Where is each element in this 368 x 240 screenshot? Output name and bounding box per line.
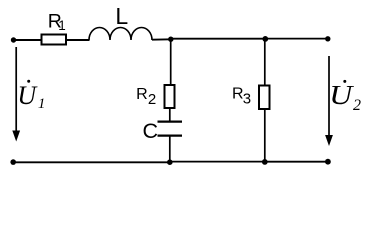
svg-text:U: U [329, 81, 354, 110]
resistor R2 [165, 85, 175, 108]
label U2 [329, 80, 361, 114]
svg-text:2: 2 [148, 91, 156, 108]
wire: bottom rail right segment [265, 161, 328, 163]
node: bottom junction of R3 branch [262, 159, 268, 165]
wire: node B to top-right output terminal [266, 38, 329, 40]
node: top-left input terminal [11, 37, 16, 42]
wire: node B down to R3 [264, 39, 266, 85]
resistor R1 [42, 35, 67, 45]
svg-text:3: 3 [243, 91, 251, 108]
wire: bottom rail middle segment [170, 161, 265, 163]
resistor R3 [259, 86, 270, 110]
svg-text:U: U [17, 81, 38, 110]
label L [115, 3, 128, 29]
label R1 [48, 10, 66, 33]
label U1 [17, 80, 45, 113]
svg-text:C: C [143, 119, 159, 143]
capacitor C [158, 122, 183, 136]
wire: inductor to node A [152, 38, 171, 40]
inductor L [89, 27, 152, 40]
wire: bottom rail left segment [13, 161, 170, 163]
label R3 [232, 85, 251, 107]
node A: junction of L, R2 branch [168, 37, 173, 42]
wire: top rail from input terminal to R1 [14, 39, 42, 41]
wire: R3 down to bottom rail [264, 110, 266, 162]
wire: node A to node B [171, 38, 266, 40]
U2 voltage arrow [325, 56, 333, 146]
svg-text:1: 1 [38, 96, 46, 112]
wire: capacitor C down to bottom rail [169, 136, 171, 162]
svg-text:1: 1 [58, 18, 66, 33]
wire: node A down to R2 [170, 39, 172, 84]
node: bottom-right terminal [325, 159, 331, 165]
wire: R2 to capacitor C [169, 109, 171, 122]
node: bottom-left terminal [10, 159, 16, 165]
svg-text:L: L [115, 3, 128, 29]
wire: R1 to inductor L [67, 39, 90, 41]
node B: junction of R3 branch [262, 36, 268, 42]
label C [143, 119, 159, 143]
U1 voltage arrow [12, 47, 20, 142]
node: bottom junction of R2/C branch [167, 159, 173, 165]
svg-text:R: R [136, 86, 148, 103]
node: top-right output terminal [325, 36, 330, 41]
label R2 [136, 86, 156, 108]
svg-text:2: 2 [353, 97, 361, 114]
